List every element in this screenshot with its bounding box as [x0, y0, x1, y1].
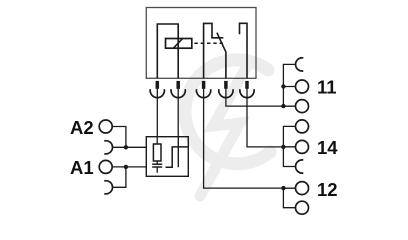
terminal circle 12	[296, 182, 309, 195]
wire T5 to 14	[247, 89, 295, 147]
svg-text:A2: A2	[70, 117, 94, 138]
terminal pin 4	[219, 81, 233, 98]
input module box	[146, 137, 188, 177]
terminal circle A2	[99, 120, 112, 133]
terminal circle 14	[296, 140, 309, 153]
bridge contact A2	[104, 141, 112, 154]
bus bracket 11	[283, 64, 295, 106]
svg-text:12: 12	[317, 179, 338, 200]
junction A2	[124, 145, 128, 149]
watermark logo ghost	[185, 60, 270, 196]
wire T1 to input module	[156, 89, 158, 137]
actuation dashed link	[194, 42, 223, 44]
coil loop wire	[157, 24, 178, 78]
terminal pin 3	[196, 81, 210, 98]
bus bracket 12	[283, 188, 295, 208]
pulse shaper symbol	[166, 137, 189, 168]
junction 12	[281, 186, 285, 190]
svg-text:14: 14	[317, 137, 338, 158]
svg-text:11: 11	[317, 77, 337, 98]
svg-text:A1: A1	[70, 157, 94, 178]
coil K1	[166, 39, 192, 49]
terminal circle 11-lower	[296, 100, 309, 113]
wire T4 to 11	[226, 89, 296, 107]
terminal circle 11	[296, 80, 309, 93]
junction 11-b	[281, 104, 285, 108]
junction 14	[281, 145, 285, 149]
bridge contact 11	[296, 58, 304, 71]
NO contact arm	[240, 23, 248, 78]
terminal circle A1	[99, 160, 112, 173]
terminal circle 14-upper	[296, 120, 309, 133]
bridge contact A1	[104, 181, 112, 194]
bridge contact 14	[296, 160, 304, 173]
terminal pin 2	[171, 81, 185, 98]
wire A1	[112, 167, 146, 187]
resistor R	[153, 137, 161, 165]
capacitor C	[152, 164, 162, 173]
terminal circle 12-lower	[296, 201, 309, 214]
relay outline box	[146, 8, 256, 79]
coil diagonal	[173, 39, 182, 49]
NC contact arm	[204, 23, 224, 78]
wire T3 to 12	[204, 89, 296, 189]
terminal pin 5	[240, 81, 254, 98]
movable contact	[217, 33, 226, 79]
terminal pin 1	[150, 81, 164, 98]
junction 11-a	[281, 84, 285, 88]
junction A1	[124, 165, 128, 169]
bus bracket 14	[283, 126, 295, 166]
wire A2	[112, 127, 146, 148]
wire T2 to input module	[177, 89, 179, 137]
